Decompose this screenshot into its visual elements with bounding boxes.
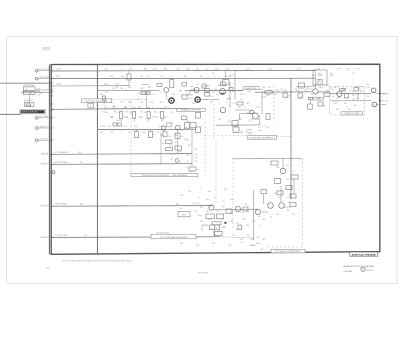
svg-text:C10: C10 xyxy=(178,161,181,163)
svg-text:R72: R72 xyxy=(252,221,255,223)
svg-text:R36: R36 xyxy=(330,75,333,77)
svg-text:877: 877 xyxy=(318,99,321,101)
svg-text:OUTPUT CKT BD: OUTPUT CKT BD xyxy=(345,113,360,115)
svg-text:5.2k: 5.2k xyxy=(220,219,223,221)
svg-text:2.9k: 2.9k xyxy=(230,75,233,77)
svg-text:546: 546 xyxy=(134,126,137,128)
svg-text:C86: C86 xyxy=(212,92,215,94)
svg-text:L18: L18 xyxy=(138,107,141,109)
svg-text:C85: C85 xyxy=(164,117,167,119)
svg-text:425: 425 xyxy=(104,107,107,109)
svg-text:79pf: 79pf xyxy=(194,154,198,156)
svg-text:88: 88 xyxy=(274,94,276,96)
svg-text:C12: C12 xyxy=(128,132,131,134)
svg-text:C22: C22 xyxy=(326,85,329,87)
svg-text:R10: R10 xyxy=(288,202,291,204)
svg-text:L99: L99 xyxy=(144,112,147,114)
svg-text:L17: L17 xyxy=(196,169,199,171)
svg-text:R61: R61 xyxy=(206,199,209,201)
svg-text:L39: L39 xyxy=(174,142,177,144)
svg-text:DLY'D SWP MAG REGEN SW: DLY'D SWP MAG REGEN SW xyxy=(160,236,187,239)
svg-text:.3: .3 xyxy=(125,89,126,91)
svg-text:L76: L76 xyxy=(140,102,143,104)
svg-text:65pf: 65pf xyxy=(178,151,182,153)
svg-text:J SWP B: J SWP B xyxy=(40,164,49,166)
svg-text:L44: L44 xyxy=(194,149,197,151)
svg-text:L42: L42 xyxy=(152,94,155,96)
svg-text:L25: L25 xyxy=(170,112,173,114)
svg-text:3.1k: 3.1k xyxy=(366,87,369,89)
svg-text:Q40: Q40 xyxy=(158,126,161,128)
svg-text:C70: C70 xyxy=(356,68,359,70)
svg-text:R60: R60 xyxy=(192,103,195,105)
svg-text:4.6k: 4.6k xyxy=(146,107,149,109)
svg-text:L90: L90 xyxy=(304,90,307,92)
svg-text:3.4k: 3.4k xyxy=(256,107,259,109)
svg-text:C43: C43 xyxy=(180,195,183,197)
svg-text:VOLTS/DIV VAR (DC BAL): VOLTS/DIV VAR (DC BAL) xyxy=(85,100,108,103)
svg-text:6.9k: 6.9k xyxy=(240,94,243,96)
svg-text:C61: C61 xyxy=(115,87,118,89)
svg-text:74k: 74k xyxy=(366,96,369,98)
svg-text:7.4k: 7.4k xyxy=(204,99,207,101)
svg-text:C93: C93 xyxy=(124,126,127,128)
svg-text:L68: L68 xyxy=(232,235,235,237)
svg-text:Q85: Q85 xyxy=(276,167,279,169)
svg-text:-150V: -150V xyxy=(56,76,62,78)
svg-text:2.5k: 2.5k xyxy=(210,96,213,98)
svg-text:9.5k: 9.5k xyxy=(218,119,221,121)
svg-text:◀VERTICAL PREAMP▶: ◀VERTICAL PREAMP▶ xyxy=(351,254,377,257)
svg-text:1.7k: 1.7k xyxy=(232,103,235,105)
svg-text:281: 281 xyxy=(236,223,239,225)
svg-text:D15: D15 xyxy=(186,94,189,96)
svg-text:C26: C26 xyxy=(120,102,123,104)
svg-text:R89: R89 xyxy=(155,117,158,119)
svg-text:2.6k: 2.6k xyxy=(160,135,163,137)
svg-text:TRIG OUT: TRIG OUT xyxy=(40,206,50,208)
svg-text:R23: R23 xyxy=(114,112,117,114)
svg-text:69pf: 69pf xyxy=(128,87,132,89)
svg-text:PROBE C: PROBE C xyxy=(40,237,50,239)
svg-text:.9: .9 xyxy=(152,106,153,108)
svg-text:12: 12 xyxy=(53,139,55,141)
svg-text:4.5k: 4.5k xyxy=(188,191,191,193)
svg-text:30k: 30k xyxy=(130,112,133,114)
svg-text:PHASE INVERTER AMP: PHASE INVERTER AMP xyxy=(181,109,202,112)
svg-text:64k: 64k xyxy=(124,107,127,109)
svg-text:D89: D89 xyxy=(218,85,221,87)
svg-text:R91: R91 xyxy=(214,89,217,91)
svg-text:R43: R43 xyxy=(100,94,103,96)
svg-text:.2: .2 xyxy=(168,107,169,109)
svg-text:1.5k: 1.5k xyxy=(330,89,333,91)
svg-text:R11: R11 xyxy=(230,212,233,214)
svg-text:+GATE A: +GATE A xyxy=(40,153,49,156)
svg-text:52pf: 52pf xyxy=(152,134,156,136)
svg-text:44k: 44k xyxy=(356,94,359,96)
svg-text:.5: .5 xyxy=(214,197,215,199)
svg-text:7.2k: 7.2k xyxy=(194,161,197,163)
svg-text:5.4k: 5.4k xyxy=(158,112,161,114)
svg-text:L64: L64 xyxy=(262,239,265,241)
svg-text:Q39: Q39 xyxy=(286,210,289,212)
svg-text:31k: 31k xyxy=(330,73,333,75)
svg-text:9.1k: 9.1k xyxy=(140,76,143,78)
svg-text:C30: C30 xyxy=(246,113,249,115)
svg-text:.9: .9 xyxy=(200,187,201,189)
svg-text:29k: 29k xyxy=(208,219,211,221)
svg-text:R81: R81 xyxy=(314,85,317,87)
svg-text:32pf: 32pf xyxy=(142,132,146,134)
svg-text:92k: 92k xyxy=(224,189,227,191)
svg-text:Q93: Q93 xyxy=(174,135,177,137)
svg-text:R10: R10 xyxy=(118,112,121,114)
svg-text:L36: L36 xyxy=(310,94,313,96)
svg-text:85pf: 85pf xyxy=(218,231,222,233)
svg-text:701: 701 xyxy=(186,155,189,157)
svg-text:60k: 60k xyxy=(284,90,287,92)
svg-text:L73: L73 xyxy=(284,189,287,191)
svg-text:R59: R59 xyxy=(266,137,269,139)
svg-text:.9: .9 xyxy=(194,132,195,134)
svg-text:C82: C82 xyxy=(116,83,119,85)
svg-text:41pf: 41pf xyxy=(312,75,316,77)
svg-text:17k: 17k xyxy=(258,127,261,129)
svg-text:C99: C99 xyxy=(216,211,219,213)
svg-text:R68: R68 xyxy=(186,121,189,123)
svg-text:.9: .9 xyxy=(350,89,351,91)
svg-text:185: 185 xyxy=(152,117,155,119)
svg-text:.2: .2 xyxy=(244,107,245,109)
svg-text:738: 738 xyxy=(318,87,321,89)
svg-text:.6: .6 xyxy=(170,76,171,78)
svg-text:R90: R90 xyxy=(128,102,131,104)
svg-text:236: 236 xyxy=(240,212,243,214)
svg-text:L37: L37 xyxy=(200,221,203,223)
svg-text:48k: 48k xyxy=(105,112,108,114)
svg-text:L88: L88 xyxy=(258,130,261,132)
svg-text:J5 -SIG: J5 -SIG xyxy=(383,101,389,103)
svg-text:R19: R19 xyxy=(228,121,231,123)
svg-text:J4 +SIG: J4 +SIG xyxy=(383,93,390,95)
svg-text:24k: 24k xyxy=(180,243,183,245)
svg-text:L37: L37 xyxy=(212,73,215,75)
svg-text:R22: R22 xyxy=(276,90,279,92)
svg-text:17: 17 xyxy=(53,236,55,238)
svg-text:INPUT ATTEN: INPUT ATTEN xyxy=(24,84,36,87)
svg-text:R51: R51 xyxy=(348,109,351,111)
svg-text:.3: .3 xyxy=(258,225,259,227)
svg-text:1.2k: 1.2k xyxy=(350,91,353,93)
svg-text:980: 980 xyxy=(238,119,241,121)
svg-text:44pf: 44pf xyxy=(124,117,128,119)
svg-text:6.4k: 6.4k xyxy=(188,98,191,100)
svg-text:C36: C36 xyxy=(244,204,247,206)
svg-text:858: 858 xyxy=(246,225,249,227)
svg-text:53k: 53k xyxy=(338,97,341,99)
svg-text:C26: C26 xyxy=(156,132,159,134)
svg-text:.3: .3 xyxy=(292,171,293,173)
svg-text:13: 13 xyxy=(53,153,55,155)
svg-text:93pf: 93pf xyxy=(366,84,370,86)
svg-text:7.7k: 7.7k xyxy=(256,237,259,239)
svg-text:C88: C88 xyxy=(228,245,231,247)
svg-text:84pf: 84pf xyxy=(252,245,256,247)
svg-text:52k: 52k xyxy=(102,112,105,114)
svg-text:10: 10 xyxy=(53,116,55,118)
svg-text:R94: R94 xyxy=(176,204,179,206)
svg-text:R15: R15 xyxy=(105,92,108,94)
svg-text:D89: D89 xyxy=(172,94,175,96)
svg-text:C18: C18 xyxy=(262,219,265,221)
svg-text:9.2k: 9.2k xyxy=(226,68,229,70)
svg-text:16: 16 xyxy=(53,205,55,207)
svg-text:L64: L64 xyxy=(110,102,113,104)
svg-text:C70: C70 xyxy=(138,117,141,119)
svg-text:C21: C21 xyxy=(326,90,329,92)
svg-text:L48: L48 xyxy=(214,227,217,229)
svg-text:.3: .3 xyxy=(244,249,245,251)
svg-text:2.1k: 2.1k xyxy=(180,136,183,138)
svg-text:L66: L66 xyxy=(208,191,211,193)
svg-text:39pf: 39pf xyxy=(360,91,364,93)
svg-text:C34: C34 xyxy=(120,88,123,90)
svg-text:43pf: 43pf xyxy=(240,239,244,241)
svg-text:C13: C13 xyxy=(232,91,235,93)
svg-text:+100V: +100V xyxy=(56,84,62,86)
svg-text:L99: L99 xyxy=(246,103,249,105)
svg-text:L28: L28 xyxy=(160,76,163,78)
svg-text:570: 570 xyxy=(240,99,243,101)
svg-text:R54: R54 xyxy=(342,91,345,93)
svg-text:L15: L15 xyxy=(222,201,225,203)
svg-text:C28: C28 xyxy=(342,89,345,91)
svg-text:C57: C57 xyxy=(196,84,199,86)
svg-text:640: 640 xyxy=(334,103,337,105)
svg-text:L45: L45 xyxy=(352,73,355,75)
svg-text:27pf: 27pf xyxy=(300,97,304,99)
svg-text:85pf: 85pf xyxy=(318,81,322,83)
svg-text:65pf: 65pf xyxy=(288,95,292,97)
svg-text:ALT TRACE SYNC AMPLIFIER: ALT TRACE SYNC AMPLIFIER xyxy=(275,250,301,253)
svg-text:C45: C45 xyxy=(170,154,173,156)
svg-text:R48: R48 xyxy=(242,219,245,221)
svg-text:L15: L15 xyxy=(294,89,297,91)
svg-text:DELAY LINE: DELAY LINE xyxy=(246,87,257,90)
svg-text:1: 1 xyxy=(373,90,374,92)
svg-text:3.8k: 3.8k xyxy=(234,132,237,134)
svg-text:8.4k: 8.4k xyxy=(105,84,108,86)
svg-text:R80: R80 xyxy=(144,68,147,70)
svg-text:L30: L30 xyxy=(268,87,271,89)
svg-text:L50: L50 xyxy=(250,239,253,241)
svg-text:3.6k: 3.6k xyxy=(260,89,263,91)
svg-text:C35: C35 xyxy=(194,211,197,213)
svg-text:.3: .3 xyxy=(218,102,219,104)
svg-text:544: 544 xyxy=(46,268,49,270)
svg-text:+10.5V: +10.5V xyxy=(100,126,106,128)
svg-text:694: 694 xyxy=(344,103,347,105)
svg-text:C66: C66 xyxy=(110,132,113,134)
svg-text:C85: C85 xyxy=(206,211,209,213)
svg-text:31k: 31k xyxy=(132,107,135,109)
svg-text:6.2k: 6.2k xyxy=(84,235,87,237)
svg-text:5.7k: 5.7k xyxy=(262,126,265,128)
svg-text:.1: .1 xyxy=(140,134,141,136)
svg-text:R72: R72 xyxy=(160,102,163,104)
svg-text:L16: L16 xyxy=(164,106,167,108)
svg-text:10k: 10k xyxy=(246,211,249,213)
svg-text:988: 988 xyxy=(200,76,203,78)
svg-text:TRIG SIGNAL: TRIG SIGNAL xyxy=(55,203,66,206)
svg-text:.3: .3 xyxy=(120,132,121,134)
svg-text:99k: 99k xyxy=(286,179,289,181)
svg-text:184: 184 xyxy=(190,171,193,173)
svg-text:L68: L68 xyxy=(210,229,213,231)
svg-text:D48: D48 xyxy=(274,193,277,195)
svg-text:E660: E660 xyxy=(182,215,186,217)
svg-text:38: 38 xyxy=(270,217,272,219)
svg-text:.1: .1 xyxy=(120,68,121,70)
svg-text:7.8k: 7.8k xyxy=(194,157,197,159)
svg-text:416: 416 xyxy=(200,207,203,209)
svg-text:14: 14 xyxy=(53,163,55,165)
svg-text:156: 156 xyxy=(356,98,359,100)
svg-text:R19: R19 xyxy=(162,143,165,145)
svg-text:C90: C90 xyxy=(224,76,227,78)
svg-text:C56: C56 xyxy=(280,89,283,91)
svg-text:72pf: 72pf xyxy=(180,130,184,132)
svg-text:.4: .4 xyxy=(104,83,105,85)
svg-text:470: 470 xyxy=(241,242,244,244)
svg-text:C16: C16 xyxy=(110,117,113,119)
svg-text:55pf: 55pf xyxy=(322,105,326,107)
svg-text:C42: C42 xyxy=(276,214,279,216)
svg-text:C83: C83 xyxy=(334,87,337,89)
svg-text:.5: .5 xyxy=(156,107,157,109)
svg-text:62pf: 62pf xyxy=(206,85,210,87)
svg-text:+125V: +125V xyxy=(56,69,62,71)
svg-text:86k: 86k xyxy=(216,94,219,96)
svg-text:2: 2 xyxy=(374,104,375,106)
svg-text:15: 15 xyxy=(53,171,55,173)
svg-text:86pf: 86pf xyxy=(256,243,260,245)
svg-text:L19: L19 xyxy=(248,91,251,93)
svg-text:68k: 68k xyxy=(206,225,209,227)
svg-text:R68: R68 xyxy=(240,132,243,134)
svg-text:L41: L41 xyxy=(188,128,191,130)
svg-text:.8: .8 xyxy=(232,130,233,132)
svg-text:.4: .4 xyxy=(226,213,227,215)
svg-text:+1.5: +1.5 xyxy=(89,106,92,108)
svg-text:81pf: 81pf xyxy=(198,215,202,217)
svg-text:L58: L58 xyxy=(260,249,263,251)
svg-text:81k: 81k xyxy=(292,214,295,216)
svg-text:.1: .1 xyxy=(258,137,259,139)
svg-text:R41: R41 xyxy=(318,73,321,75)
svg-text:REF 16B 1AB: REF 16B 1AB xyxy=(198,271,209,274)
svg-text:L95: L95 xyxy=(140,112,143,114)
svg-text:R57: R57 xyxy=(266,127,269,129)
svg-text:76k: 76k xyxy=(80,162,83,164)
svg-text:.6: .6 xyxy=(198,197,199,199)
svg-text:997: 997 xyxy=(164,68,167,70)
svg-text:9.7k: 9.7k xyxy=(256,119,259,121)
svg-text:19k: 19k xyxy=(192,203,195,205)
svg-text:R75: R75 xyxy=(210,102,213,104)
svg-text:SER 100: SER 100 xyxy=(367,270,374,272)
svg-text:TO DLY'D SWP: TO DLY'D SWP xyxy=(55,235,68,237)
svg-text:8.8k: 8.8k xyxy=(184,127,187,129)
svg-text:869: 869 xyxy=(184,76,187,78)
svg-text:C80: C80 xyxy=(230,221,233,223)
svg-text:87k: 87k xyxy=(212,243,215,245)
svg-text:1.6k: 1.6k xyxy=(266,95,269,97)
svg-text:8.7k: 8.7k xyxy=(180,208,183,210)
svg-text:65k: 65k xyxy=(154,112,157,114)
svg-text:13k: 13k xyxy=(250,132,253,134)
svg-text:L39: L39 xyxy=(352,99,355,101)
svg-text:L38: L38 xyxy=(140,88,143,90)
svg-text:TERM: TERM xyxy=(318,75,323,77)
svg-text:89k: 89k xyxy=(126,112,129,114)
svg-text:80k: 80k xyxy=(354,105,357,107)
svg-text:R71: R71 xyxy=(188,145,191,147)
svg-text:TYPE 3A6: TYPE 3A6 xyxy=(343,270,352,273)
svg-text:57pf: 57pf xyxy=(254,113,258,115)
svg-text:R56: R56 xyxy=(186,68,189,70)
svg-text:3.6k: 3.6k xyxy=(146,76,149,78)
svg-text:R25: R25 xyxy=(196,245,199,247)
svg-text:.5: .5 xyxy=(280,175,281,177)
svg-text:C75: C75 xyxy=(186,161,189,163)
svg-text:L16: L16 xyxy=(286,165,289,167)
svg-text:R28: R28 xyxy=(112,107,115,109)
svg-text:11: 11 xyxy=(53,127,55,129)
svg-text:.6: .6 xyxy=(346,99,347,101)
svg-text:65k: 65k xyxy=(196,68,199,70)
svg-text:.5: .5 xyxy=(214,76,215,78)
svg-text:34k: 34k xyxy=(278,197,281,199)
svg-text:.6: .6 xyxy=(186,167,187,169)
svg-text:TRIGGER PICKOFF EMITTER FOL: TRIGGER PICKOFF EMITTER FOL xyxy=(248,137,275,139)
svg-text:.3: .3 xyxy=(276,249,277,251)
svg-text:.5: .5 xyxy=(116,107,117,109)
svg-text:TO 5X MAG SW: TO 5X MAG SW xyxy=(55,151,68,154)
svg-text:727: 727 xyxy=(170,159,173,161)
svg-text:902: 902 xyxy=(104,98,107,100)
svg-text:R87: R87 xyxy=(352,95,355,97)
svg-text:.9: .9 xyxy=(160,92,161,94)
svg-text:C62: C62 xyxy=(248,121,251,123)
svg-text:64pf: 64pf xyxy=(346,68,350,70)
svg-text:.9: .9 xyxy=(286,197,287,199)
svg-text:712: 712 xyxy=(108,126,111,128)
svg-text:C25: C25 xyxy=(286,97,289,99)
svg-text:81pf: 81pf xyxy=(230,199,234,201)
svg-text:CALIBRATOR CIRCUIT & DIAGRAM: CALIBRATOR CIRCUIT & DIAGRAM xyxy=(343,265,375,268)
svg-text:R59: R59 xyxy=(238,107,241,109)
svg-text:+225V: +225V xyxy=(214,68,220,70)
svg-text:R18: R18 xyxy=(150,102,153,104)
svg-text:C51: C51 xyxy=(186,140,189,142)
svg-text:Q47: Q47 xyxy=(222,206,225,208)
svg-text:TRIGGER MODE SWITCHING — SEE D: TRIGGER MODE SWITCHING — SEE DIAGRAM 2 xyxy=(141,174,188,177)
svg-text:.6: .6 xyxy=(226,102,227,104)
svg-text:Q19: Q19 xyxy=(196,203,199,205)
svg-text:D99: D99 xyxy=(226,99,229,101)
